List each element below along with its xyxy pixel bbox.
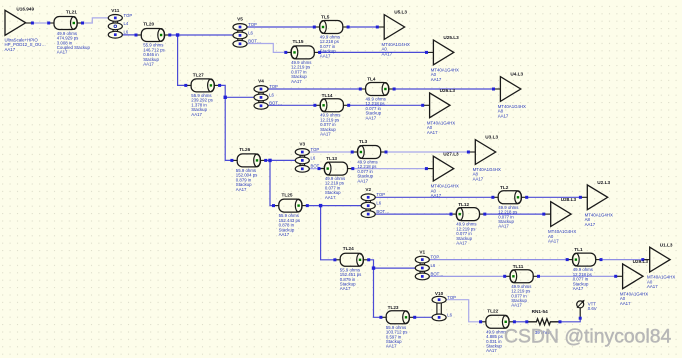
svg-text:12.219 ps: 12.219 ps: [456, 226, 476, 231]
svg-text:A8: A8: [473, 172, 479, 177]
svg-text:V5: V5: [237, 17, 243, 22]
wire TL15 to U25.L3: [320, 51, 427, 53]
svg-text:146.712 ps: 146.712 ps: [143, 47, 165, 52]
wire TL26 to junction and via V3 L6 port: [266, 159, 303, 161]
via V10: [436, 300, 438, 318]
svg-text:AA17: AA17: [57, 50, 68, 55]
junction node C (V3 branch): [268, 159, 271, 162]
svg-text:Stackup: Stackup: [366, 111, 382, 116]
svg-text:TOP: TOP: [447, 295, 456, 300]
wire TL21 to via V11 TOP port: [83, 18, 110, 23]
wire junction down to TL24: [321, 206, 335, 260]
svg-text:12.219 ps: 12.219 ps: [291, 65, 311, 70]
receiver buffer U25.L3: [427, 51, 434, 53]
wire V11 L6 to TL20: [115, 34, 136, 36]
wire TL1 to U1.L3: [601, 258, 643, 260]
svg-text:BOT…: BOT…: [431, 271, 444, 276]
svg-text:AA17: AA17: [191, 112, 202, 117]
svg-text:V2: V2: [365, 187, 371, 192]
receiver buffer U2.L3: [580, 196, 587, 198]
junction node B (V4 branch): [224, 96, 227, 99]
svg-text:Stackup: Stackup: [498, 219, 514, 224]
svg-text:12.219 ps: 12.219 ps: [325, 181, 345, 186]
transmission line TL21: [49, 22, 54, 24]
svg-text:U3.L3: U3.L3: [485, 135, 498, 140]
svg-text:AA17: AA17: [620, 301, 631, 306]
svg-text:TL4: TL4: [367, 77, 376, 82]
svg-text:AA17: AA17: [366, 115, 377, 120]
svg-text:474.929 ps: 474.929 ps: [57, 36, 79, 41]
transmission line TL12: [451, 213, 456, 215]
svg-text:V10: V10: [435, 291, 444, 296]
svg-text:U4.L3: U4.L3: [510, 72, 523, 77]
receiver buffer U1.L3: [643, 259, 650, 261]
svg-text:AA17: AA17: [498, 224, 509, 229]
via V5: [237, 27, 239, 44]
svg-text:TL20: TL20: [143, 21, 154, 26]
svg-text:L6: L6: [248, 30, 253, 35]
svg-text:TL3: TL3: [359, 139, 368, 144]
svg-text:L6: L6: [431, 263, 436, 268]
svg-text:Stackup: Stackup: [486, 343, 502, 348]
wire V4 TOP to TL4: [261, 88, 360, 90]
svg-text:L6: L6: [124, 30, 129, 35]
svg-text:BOT…: BOT…: [311, 164, 324, 169]
transmission line TL20: [136, 34, 141, 36]
svg-text:Stackup: Stackup: [320, 127, 336, 132]
svg-text:A0: A0: [548, 234, 554, 239]
transmission line TL5: [314, 26, 319, 28]
svg-text:AA17: AA17: [548, 239, 559, 244]
svg-text:A0: A0: [620, 296, 626, 301]
wire TL13 to U27.L3: [353, 167, 427, 169]
svg-text:AA17: AA17: [498, 113, 509, 118]
wire V10 TOP to TL22: [439, 300, 481, 322]
transmission line TL11: [505, 275, 510, 277]
svg-text:TL21: TL21: [66, 10, 77, 15]
svg-text:TL23: TL23: [388, 305, 399, 310]
svg-text:103.712 ps: 103.712 ps: [386, 330, 408, 335]
wire trunk node down to TL27: [178, 35, 186, 85]
wire TL4 to U4.L3: [394, 88, 493, 90]
wire TL12 to U28.L3: [485, 213, 544, 215]
wire junction down to TL25: [270, 160, 274, 205]
svg-text:V11: V11: [111, 8, 119, 13]
svg-text:A8: A8: [585, 217, 591, 222]
svg-text:12.218 ps: 12.218 ps: [573, 272, 593, 277]
wire V3 TOP to TL3: [302, 151, 352, 153]
svg-text:A0: A0: [647, 279, 653, 284]
svg-text:0.6V: 0.6V: [588, 306, 597, 311]
svg-text:4.885 ps: 4.885 ps: [486, 334, 503, 339]
transmission line TL23: [381, 316, 386, 318]
svg-text:RN1-54: RN1-54: [532, 309, 549, 314]
svg-text:Stackup: Stackup: [511, 298, 527, 303]
wire RN1-54 to VTT node: [560, 318, 580, 322]
svg-text:L6: L6: [376, 201, 381, 206]
wire TL27 to junction down to TL26: [220, 85, 232, 160]
svg-text:Stackup: Stackup: [357, 174, 373, 179]
receiver buffer U3.L3: [468, 151, 475, 153]
svg-text:A8: A8: [498, 109, 504, 114]
wire V3 BOT to TL13: [302, 167, 319, 169]
svg-text:U26.L3: U26.L3: [440, 88, 456, 93]
svg-text:AA17: AA17: [573, 286, 584, 291]
receiver buffer U28.L3: [544, 213, 551, 215]
svg-text:U29.L3: U29.L3: [633, 259, 649, 264]
driver buffer U16.949: [26, 22, 31, 24]
wire TL3 to U3.L3: [386, 151, 468, 153]
svg-text:CSDN @tinycool84: CSDN @tinycool84: [504, 326, 672, 348]
svg-text:TL22: TL22: [487, 309, 498, 314]
wire TL22 to RN1-54: [514, 321, 526, 323]
junction node E (V1 branch): [372, 266, 375, 269]
svg-text:A0: A0: [431, 188, 437, 193]
wire TL23 to via V10 L6 port: [415, 316, 439, 318]
svg-text:Stackup: Stackup: [191, 107, 207, 112]
via V11: [112, 18, 114, 35]
wire junction to via V1 L6 port: [374, 267, 423, 269]
wire driver output to TL21 (top layer): [32, 22, 48, 24]
svg-text:BOT…: BOT…: [376, 209, 389, 214]
via V4: [258, 89, 260, 106]
wire TL14 to U26.L3: [349, 104, 423, 106]
svg-text:U5.L3: U5.L3: [394, 10, 407, 15]
svg-text:TL11: TL11: [513, 264, 524, 269]
svg-text:Coupled Stackup: Coupled Stackup: [57, 45, 91, 50]
svg-text:Stackup: Stackup: [320, 49, 336, 54]
wire V4 BOT to TL14: [261, 104, 315, 106]
transmission line TL22: [481, 321, 486, 323]
svg-text:U2.L3: U2.L3: [597, 180, 610, 185]
transmission line TL2: [493, 196, 498, 198]
transmission line TL25: [274, 205, 279, 207]
svg-text:TOP: TOP: [269, 84, 278, 89]
transmission line TL15: [286, 51, 291, 53]
svg-text:12.218 ps: 12.218 ps: [320, 39, 340, 44]
svg-text:Stackup: Stackup: [325, 190, 341, 195]
svg-text:L6: L6: [311, 155, 316, 160]
svg-text:AA17: AA17: [143, 62, 154, 67]
svg-text:TL24: TL24: [343, 246, 354, 251]
svg-text:AA17: AA17: [431, 77, 442, 82]
svg-text:L6: L6: [269, 92, 274, 97]
receiver buffer U29.L3: [616, 275, 623, 277]
junction node D (V2 branch): [319, 204, 322, 207]
svg-text:AA17: AA17: [647, 284, 658, 289]
svg-text:12.218 ps: 12.218 ps: [366, 101, 386, 106]
svg-text:AA17: AA17: [5, 47, 16, 52]
svg-text:TOP: TOP: [124, 13, 133, 18]
receiver buffer U5.L3: [377, 26, 384, 28]
receiver buffer U27.L3: [426, 168, 433, 170]
svg-text:TL12: TL12: [458, 202, 469, 207]
svg-text:AA17: AA17: [427, 130, 438, 135]
junction node A (TL20 output): [176, 33, 179, 36]
svg-text:BOT…: BOT…: [269, 101, 282, 106]
via V1: [419, 260, 421, 277]
svg-text:U16.949: U16.949: [16, 6, 34, 11]
svg-text:TL5: TL5: [321, 15, 330, 20]
svg-text:L6: L6: [447, 313, 452, 318]
svg-text:L4: L4: [124, 21, 129, 26]
svg-text:TOP: TOP: [376, 192, 385, 197]
svg-text:AA17: AA17: [486, 348, 497, 353]
svg-text:AA17: AA17: [279, 232, 290, 237]
transmission line TL4: [360, 88, 365, 90]
svg-text:TL2: TL2: [500, 185, 509, 190]
svg-text:12.219 ps: 12.219 ps: [511, 289, 531, 294]
svg-text:U1.L3: U1.L3: [660, 242, 673, 247]
svg-text:Stackup: Stackup: [291, 74, 307, 79]
wire TL11 to U29.L3: [539, 275, 616, 277]
wire V2 BOT to TL12: [368, 213, 451, 215]
svg-text:AA17: AA17: [431, 193, 442, 198]
wire TL24 to corner down to TL23: [369, 260, 381, 318]
svg-text:12.218 ps: 12.218 ps: [498, 210, 518, 215]
svg-text:152.443 ps: 152.443 ps: [279, 218, 301, 223]
svg-text:AA17: AA17: [320, 53, 331, 58]
transmission line TL24: [335, 259, 340, 261]
svg-text:152.451 ps: 152.451 ps: [340, 272, 362, 277]
svg-text:TL25: TL25: [282, 193, 293, 198]
svg-text:U28.L3: U28.L3: [561, 197, 577, 202]
svg-text:152.004 ps: 152.004 ps: [236, 173, 258, 178]
wire V2 TOP to TL2: [368, 196, 493, 198]
svg-text:AA17: AA17: [386, 344, 397, 349]
svg-text:TL26: TL26: [239, 147, 250, 152]
svg-text:BOT…: BOT…: [248, 39, 261, 44]
svg-text:AA17: AA17: [473, 176, 484, 181]
receiver buffer U4.L3: [494, 88, 501, 90]
svg-text:AA17: AA17: [456, 241, 467, 246]
wire junction to via V4 L6 port: [225, 96, 254, 98]
transmission line TL13: [319, 168, 324, 170]
svg-text:V4: V4: [258, 79, 264, 84]
svg-text:U25.L3: U25.L3: [443, 35, 459, 40]
voltage source VTT 0.6V: [579, 308, 581, 317]
svg-text:V1: V1: [419, 249, 425, 254]
svg-text:TOP: TOP: [431, 255, 440, 260]
svg-text:12.219 ps: 12.219 ps: [320, 117, 340, 122]
svg-text:AA17: AA17: [585, 222, 596, 227]
wire TL2 to U2.L3: [527, 196, 581, 198]
wire TL5 to U5.L3: [348, 26, 377, 28]
svg-text:AA17: AA17: [291, 79, 302, 84]
svg-text:AA17: AA17: [382, 51, 393, 56]
resistor RN1-54: [528, 319, 559, 325]
svg-text:Stackup: Stackup: [143, 57, 159, 62]
svg-text:U27.L3: U27.L3: [443, 151, 459, 156]
receiver buffer U26.L3: [423, 104, 430, 106]
via V3: [299, 152, 301, 169]
svg-text:TL15: TL15: [293, 39, 304, 44]
svg-text:A0: A0: [431, 72, 437, 77]
svg-text:TL1: TL1: [574, 247, 583, 252]
svg-text:A0: A0: [427, 125, 433, 130]
svg-text:AA17: AA17: [511, 303, 522, 308]
svg-text:TOP: TOP: [248, 22, 257, 27]
svg-text:TL14: TL14: [322, 93, 333, 98]
svg-text:239.292 ps: 239.292 ps: [191, 98, 213, 103]
svg-text:TL13: TL13: [326, 156, 337, 161]
svg-text:Stackup: Stackup: [573, 281, 589, 286]
svg-text:AA17: AA17: [357, 178, 368, 183]
svg-text:TOP: TOP: [311, 147, 320, 152]
svg-text:AA17: AA17: [325, 195, 336, 200]
svg-text:Stackup: Stackup: [456, 236, 472, 241]
svg-text:HP_POD12_S_OU…: HP_POD12_S_OU…: [5, 42, 46, 47]
svg-text:Stackup: Stackup: [279, 227, 295, 232]
svg-text:AA17: AA17: [320, 132, 331, 137]
transmission line TL14: [315, 104, 320, 106]
svg-text:Stackup: Stackup: [386, 339, 402, 344]
svg-text:Stackup: Stackup: [236, 182, 252, 187]
wire TL20 to node and via V5 L6 port: [170, 34, 233, 36]
svg-text:TL27: TL27: [193, 72, 204, 77]
svg-text:AA17: AA17: [340, 286, 351, 291]
wire V5 TOP to TL5: [240, 26, 314, 28]
transmission line TL26: [232, 159, 237, 161]
wire V5 BOT to TL15: [240, 44, 286, 53]
transmission line TL27: [186, 84, 191, 86]
wire V1 TOP to TL1: [422, 258, 567, 260]
svg-text:AA17: AA17: [236, 187, 247, 192]
transmission line TL1: [567, 259, 572, 261]
svg-text:12.218 ps: 12.218 ps: [357, 164, 377, 169]
svg-text:V3: V3: [299, 142, 305, 147]
svg-text:VTT: VTT: [588, 301, 597, 306]
wire TL25 to junction and via V2 L6 port: [307, 204, 368, 206]
transmission line TL3: [352, 151, 357, 153]
via V2: [365, 197, 367, 214]
wire V1 BOT to TL11: [422, 275, 504, 277]
svg-text:A0: A0: [382, 47, 388, 52]
svg-text:Stackup: Stackup: [340, 281, 356, 286]
